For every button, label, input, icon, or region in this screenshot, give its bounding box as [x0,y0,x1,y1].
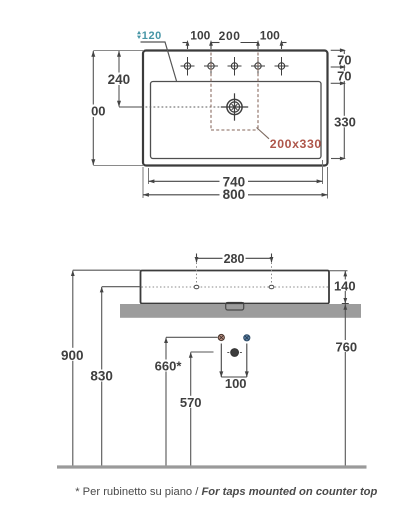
dashed drain zone 200x330 (red) [211,53,258,131]
drain tab under basin [226,303,244,311]
hot water valve (red) [218,334,224,340]
svg-text:570: 570 [180,395,202,410]
dimension 500 (left, label clipped to 00) [90,51,107,166]
extension line top-left [93,50,143,52]
svg-text:100: 100 [260,28,280,42]
label 100 (right) [260,28,280,42]
tap hole mark 2 [204,57,218,76]
label 200 [219,29,241,43]
counter top slab [120,304,361,318]
waste outlet (black) [227,349,242,357]
svg-text:100: 100 [225,376,247,391]
dimension 240 (left) [108,51,131,107]
label 120 (teal) with up-down arrow glyph [137,30,162,42]
svg-text:660*: 660* [155,358,183,373]
floor line [57,465,367,468]
label 200x330 (red) [270,137,322,151]
fixing hole right [269,285,274,289]
dimension chain 70/70/330 (right) [331,48,356,160]
dimension 140 (right) [334,271,356,304]
svg-text:70: 70 [337,68,351,83]
leader for 120 [141,42,177,81]
svg-text:200x330: 200x330 [270,137,322,151]
dimension 660* [153,337,218,467]
svg-text:00: 00 [91,103,105,118]
svg-text:800: 800 [223,187,246,202]
washbasin inner bowl (740x330) [151,82,322,159]
dimension 760 (right) [335,304,357,467]
basin bottom edge over tab [226,302,244,304]
dotted projection lines for 280 [197,263,272,285]
dimension 830 (left) [90,287,141,467]
svg-text:280: 280 [224,252,245,266]
footer note [75,486,377,498]
dimension 570 [179,352,214,467]
svg-text:120: 120 [142,30,162,42]
svg-text:760: 760 [335,339,357,354]
label 100 (left) [190,28,210,42]
svg-text:830: 830 [90,369,113,384]
dimension 280 [195,252,274,266]
svg-text:240: 240 [108,72,131,87]
dimension 100 (valves spacing) [219,344,249,392]
cold water valve (blue) [244,335,250,341]
tap hole mark 3 (centre) [228,57,242,76]
dimension 900 (far left) [61,270,141,467]
basin body front [141,271,330,304]
fixing hole left [194,285,199,289]
leader for 200x330 label [257,128,270,139]
extension line 140 top [329,270,348,272]
svg-text:70: 70 [337,52,351,67]
svg-text:140: 140 [334,278,356,293]
top dimension line 100/200/100 [183,40,287,49]
dimension 740 (bottom) [148,174,323,189]
extension line bottom-left [93,165,143,167]
svg-text:100: 100 [190,28,210,42]
drain centerline: solid stub then dotted to drain [119,106,227,108]
tap hole mark 1 [181,57,195,76]
svg-text:* Per rubinetto su piano / For: * Per rubinetto su piano / For taps moun… [75,486,377,498]
svg-text:200: 200 [219,29,241,43]
svg-text:900: 900 [61,348,84,363]
tap hole mark 4 [251,57,265,76]
dotted fixing line across basin [142,286,329,288]
dimension 800 (bottom) [143,187,328,202]
drain hole symbol [221,93,248,120]
extension verticals for bottom dims [143,160,328,199]
washbasin outer rim (800x500) [143,51,328,166]
tap hole mark 5 [275,57,289,76]
svg-text:330: 330 [334,114,356,129]
